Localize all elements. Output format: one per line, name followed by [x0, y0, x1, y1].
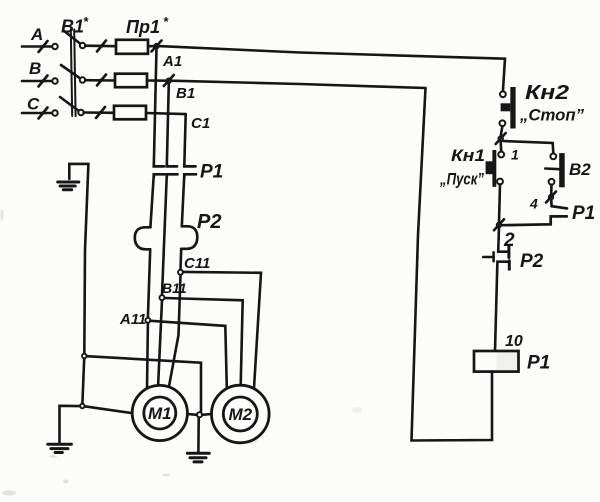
svg-text:Кн2: Кн2 — [525, 82, 569, 104]
wire B1 to right — [171, 81, 426, 88]
wire C11 down to motor M1 — [169, 275, 181, 389]
svg-text:1: 1 — [511, 147, 519, 163]
junction earth lower — [80, 404, 85, 409]
wire C to fuse — [84, 111, 114, 114]
svg-text:В1: В1 — [176, 85, 195, 102]
svg-text:В1: В1 — [61, 17, 84, 37]
button Kn1 Pusk — [486, 150, 505, 187]
switch B2 — [545, 153, 564, 187]
junction slash C before fuse — [96, 107, 105, 118]
wire phase B lead — [22, 80, 51, 83]
wire A1 to right — [159, 46, 505, 59]
ground bottom left — [48, 406, 80, 453]
thermal relay P2 heater C — [181, 226, 197, 249]
button Kn1 label — [439, 146, 485, 189]
svg-text:М1: М1 — [148, 404, 172, 423]
wire A11 down to motor M1 — [146, 323, 149, 389]
svg-text:С: С — [27, 95, 40, 114]
wire fuse C to corner C1 — [146, 113, 186, 114]
junction slash phase A — [39, 41, 48, 52]
svg-text:Пр1: Пр1 — [126, 17, 160, 37]
wire B11 branch to M2 — [165, 298, 243, 385]
button Kn2 label — [519, 82, 584, 125]
node slash above Kn1 — [496, 133, 506, 144]
node C11 — [178, 270, 183, 275]
wire node to M1 — [187, 413, 197, 416]
scan speckle marks — [1, 209, 363, 496]
wire C heater to node C11 — [179, 249, 182, 270]
wire neutral to node between motors — [87, 356, 201, 412]
node B11 — [160, 295, 165, 300]
wire A drop to P1 — [154, 48, 157, 166]
fuse Pr1 phase C — [114, 106, 146, 120]
junction slash A before fuse — [97, 41, 106, 52]
wire C P1 to heater — [182, 174, 185, 226]
wire A to fuse — [85, 44, 116, 47]
wire A heater to node A11 — [148, 249, 150, 317]
svg-text:Р1: Р1 — [527, 353, 550, 374]
ground top left — [58, 164, 89, 190]
svg-text:„Пуск”: „Пуск” — [439, 171, 484, 189]
terminal circle phase A right — [80, 43, 85, 48]
junction slash phase C — [39, 108, 48, 119]
ground below motors — [187, 417, 209, 462]
wire Kn2 to node 1 — [501, 126, 503, 136]
svg-text:В2: В2 — [569, 160, 591, 179]
svg-text:В11: В11 — [162, 280, 187, 296]
contact P1 pole C — [184, 164, 196, 177]
svg-text:Р1: Р1 — [572, 203, 595, 224]
junction slash phase B — [39, 76, 48, 87]
terminal circle phase A left — [52, 44, 57, 49]
switch B1 blade C — [60, 97, 81, 113]
wire C11 branch to M2 — [183, 272, 261, 388]
svg-text:„Стоп”: „Стоп” — [519, 106, 584, 125]
wire A1 corner down to Kn2 — [503, 59, 505, 92]
wire phase A lead — [22, 45, 51, 48]
svg-text:Р2: Р2 — [520, 251, 544, 272]
fuse Pr1 phase A — [116, 40, 148, 54]
junction earth upper — [82, 354, 87, 359]
svg-text:А11: А11 — [119, 311, 146, 328]
svg-text:Р2: Р2 — [197, 211, 221, 233]
contact P1 aux — [501, 200, 567, 226]
node A1 slash — [152, 41, 162, 52]
wire slash to Kn1 — [499, 141, 502, 152]
switch B1 label — [61, 14, 89, 37]
switch B1 linkage bar — [71, 30, 76, 117]
svg-text:А: А — [30, 25, 43, 44]
wire B11 down to motor M1 — [158, 300, 162, 388]
svg-text:С1: С1 — [191, 115, 210, 132]
wire B P1 down to node B11 — [162, 174, 167, 295]
wire A P1 to heater — [150, 174, 153, 227]
wire C drop to P1 — [184, 114, 185, 166]
relay coil P1 — [474, 351, 519, 372]
switch B1 blade A — [64, 31, 83, 46]
node A11 — [145, 318, 150, 323]
svg-text:С11: С11 — [184, 255, 210, 272]
svg-text:10: 10 — [505, 333, 523, 350]
fuse label Pr1 — [126, 14, 169, 37]
motor M1 — [132, 385, 187, 440]
contact P2 thermal NC — [483, 227, 509, 351]
wire coil bottom loop — [412, 88, 493, 441]
node between motors — [197, 412, 202, 417]
wire B2 to slash 4 — [550, 185, 553, 195]
terminal circle phase C right — [78, 110, 83, 115]
wire fuse B to node B1 — [147, 79, 169, 82]
svg-text:В: В — [29, 59, 41, 78]
wire fuse A to node A1 — [148, 45, 157, 48]
switch B1 blade B — [61, 65, 83, 80]
svg-text:М2: М2 — [228, 405, 252, 424]
motor M2 — [212, 385, 270, 443]
node slash 2 — [494, 219, 504, 230]
button Kn2 Stop — [500, 87, 516, 129]
svg-text:Р1: Р1 — [200, 162, 223, 183]
wire branch to B2 — [503, 141, 553, 153]
contact P1 pole A — [154, 164, 165, 177]
wire B drop to P1 — [167, 83, 169, 166]
svg-text:4: 4 — [529, 196, 538, 212]
node slash 4 — [546, 192, 556, 203]
node B1 slash — [164, 75, 174, 86]
terminal circle phase B left — [52, 78, 57, 83]
terminal circle phase B right — [80, 77, 85, 82]
svg-text:Кн1: Кн1 — [451, 146, 485, 165]
thermal relay P2 heater A — [135, 227, 151, 249]
junction slash B before fuse — [97, 75, 106, 86]
fuse Pr1 phase B — [115, 74, 147, 88]
wire earth to M1 — [85, 406, 133, 413]
wire Kn1 down to node 2 — [499, 184, 500, 222]
wire node to M2 — [202, 413, 211, 416]
svg-text:А1: А1 — [162, 53, 182, 70]
wire phase C lead — [22, 112, 51, 115]
terminal circle phase C left — [52, 110, 57, 115]
wire earth vertical — [82, 164, 88, 406]
wire B to fuse — [85, 79, 115, 82]
contact P1 pole B — [167, 164, 178, 177]
wire A11 branch to M2 — [150, 321, 226, 388]
